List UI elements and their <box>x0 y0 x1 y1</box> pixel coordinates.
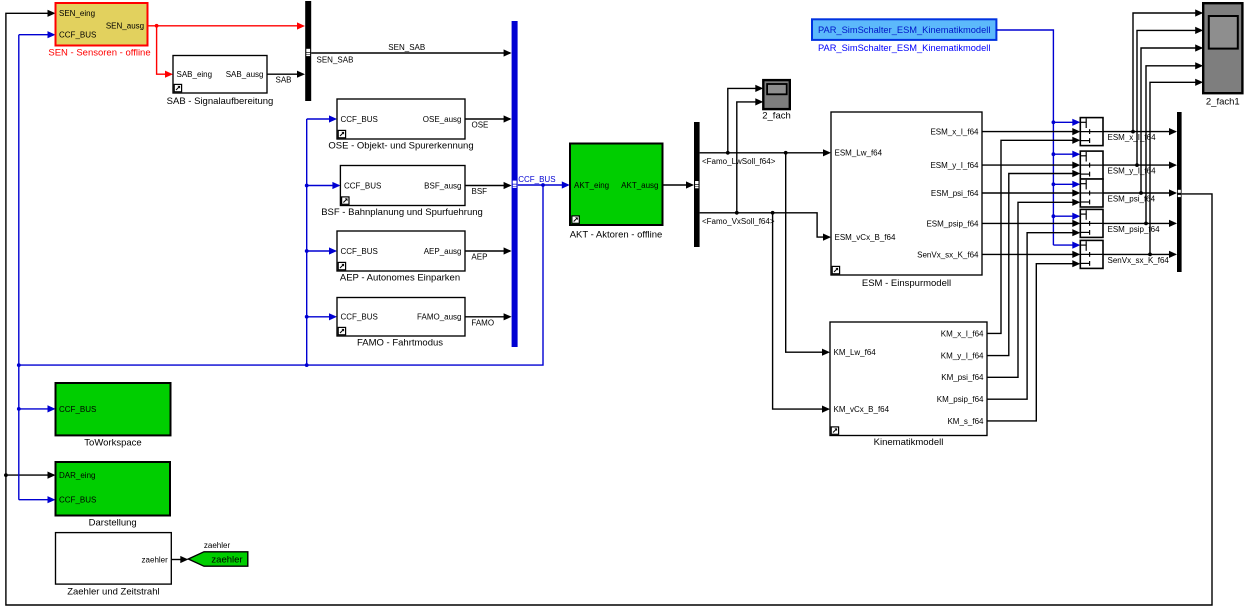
svg-text:DAR_eing: DAR_eing <box>59 471 95 480</box>
svg-text:CCF_BUS: CCF_BUS <box>344 181 381 190</box>
wire tap down to KM_vCx_B_f64 <box>773 213 830 413</box>
label CCF_BUS (blue, at Bus Creator output) <box>518 175 555 184</box>
svg-text:Kinematikmodell: Kinematikmodell <box>874 437 944 448</box>
label SAB - Signalaufbereitung <box>167 96 274 107</box>
svg-text:KM_vCx_B_f64: KM_vCx_B_f64 <box>834 405 890 414</box>
wire SEN_SAB from Mux1 to Bus Creator 2 <box>311 49 511 56</box>
label BSF <box>472 187 488 196</box>
subsystem Zaehler und Zeitstrahl <box>56 533 172 585</box>
svg-text:SEN_ausg: SEN_ausg <box>106 22 144 31</box>
mux Bus Creator 2 (blue bar) <box>512 21 518 347</box>
svg-text:FAMO_ausg: FAMO_ausg <box>417 313 461 322</box>
svg-text:OSE - Objekt- und Spurerkennun: OSE - Objekt- und Spurerkennung <box>328 141 473 152</box>
svg-text:KM_Lw_f64: KM_Lw_f64 <box>834 348 877 357</box>
scope 2_fach1 <box>1203 3 1242 93</box>
svg-text:SAB_eing: SAB_eing <box>177 70 213 79</box>
mux Mux1 (bus creator, black bar) <box>305 1 311 101</box>
svg-text:ESM_y_I_f64: ESM_y_I_f64 <box>1108 167 1157 176</box>
svg-text:ESM_psi_f64: ESM_psi_f64 <box>1108 195 1156 204</box>
label OSE <box>472 121 489 130</box>
subsystem BSF - Bahnplanung und Spurfuehrung <box>340 166 465 206</box>
label zaehler above goto tag <box>204 541 231 550</box>
svg-text:Zaehler und Zeitstrahl: Zaehler und Zeitstrahl <box>67 587 159 598</box>
svg-text:CCF_BUS: CCF_BUS <box>341 247 378 256</box>
wire <Famo_VxSoll_f64> to ESM_vCx_B_f64 <box>700 211 831 241</box>
subsystem Darstellung (green) <box>56 462 171 516</box>
switch Multiport Switch 2 <box>1080 151 1103 179</box>
svg-text:AEP_ausg: AEP_ausg <box>424 247 462 256</box>
svg-text:CCF_BUS: CCF_BUS <box>341 313 378 322</box>
svg-text:ESM_psip_f64: ESM_psip_f64 <box>1108 225 1161 234</box>
label ESM_x_I_f64 <box>1108 133 1157 142</box>
svg-text:OSE: OSE <box>472 121 489 130</box>
svg-text:2_fach1: 2_fach1 <box>1206 97 1240 108</box>
demux Bus Selector (black bar) <box>694 122 700 247</box>
svg-text:SEN_eing: SEN_eing <box>59 9 95 18</box>
svg-text:ESM_y_I_f64: ESM_y_I_f64 <box>930 161 979 170</box>
label SEN - Sensoren - offline <box>48 48 150 59</box>
label ESM_psi_f64 <box>1108 195 1156 204</box>
label OSE - Objekt- und Spurerkennung <box>328 141 473 152</box>
svg-text:CCF_BUS: CCF_BUS <box>518 175 555 184</box>
svg-text:FAMO: FAMO <box>471 318 494 327</box>
svg-text:BSF_ausg: BSF_ausg <box>424 181 461 190</box>
svg-text:ESM_psi_f64: ESM_psi_f64 <box>931 189 979 198</box>
label AEP <box>471 253 487 262</box>
label ESM_psip_f64 <box>1108 225 1161 234</box>
svg-text:CCF_BUS: CCF_BUS <box>59 496 96 505</box>
label PAR_SimSchalter_ESM_Kinematikmodell <box>818 43 990 53</box>
svg-text:zaehler: zaehler <box>204 541 231 550</box>
label FAMO <box>471 318 494 327</box>
svg-text:AKT_eing: AKT_eing <box>574 181 609 190</box>
wire ESM output 2 to switch 2 data input 1 <box>982 162 1080 169</box>
subsystem AEP - Autonomes Einparken <box>337 231 465 271</box>
mux final Mux (black bar) feeding feedback loop <box>1177 112 1182 272</box>
subsystem ToWorkspace (green) <box>56 383 171 435</box>
wire KM output 1 to switch 1 data input 2 <box>987 137 1080 334</box>
svg-text:PAR_SimSchalter_ESM_Kinematikm: PAR_SimSchalter_ESM_Kinematikmodell <box>818 43 990 53</box>
svg-text:CCF_BUS: CCF_BUS <box>341 115 378 124</box>
wire tap switch 3 output to Scope 2_fach1 input 3 <box>1141 44 1203 193</box>
subsystem AKT - Aktoren - offline (green) <box>570 144 663 226</box>
svg-text:SEN_SAB: SEN_SAB <box>317 55 354 64</box>
label Zaehler und Zeitstrahl <box>67 587 159 598</box>
subsystem ESM - Einspurmodell <box>831 112 982 275</box>
svg-text:SEN_SAB: SEN_SAB <box>388 43 425 52</box>
wire tap to Scope 2_fach input 1 <box>728 85 764 153</box>
wire tap switch 4 output to Scope 2_fach1 input 4 <box>1146 62 1203 223</box>
label FAMO - Fahrtmodus <box>357 338 443 349</box>
switch Multiport Switch 3 <box>1080 179 1103 207</box>
label Darstellung <box>89 518 137 529</box>
label Kinematikmodell <box>874 437 944 448</box>
wire KM output 5 to switch 5 data input 2 <box>987 260 1080 421</box>
wire AKT_ausg to Bus Selector <box>663 181 695 188</box>
subsystem SAB - Signalaufbereitung <box>173 56 267 94</box>
label <Famo_LwSoll_f64> <box>702 157 776 166</box>
subsystem SEN (yellow, red border) <box>56 3 148 46</box>
subsystem FAMO - Fahrtmodus <box>337 298 465 337</box>
svg-text:SAB_ausg: SAB_ausg <box>226 70 264 79</box>
svg-text:SEN - Sensoren - offline: SEN - Sensoren - offline <box>48 48 150 59</box>
label 2_fach1 <box>1206 97 1240 108</box>
svg-text:zaehler: zaehler <box>211 555 242 566</box>
svg-text:<Famo_VxSoll_f64>: <Famo_VxSoll_f64> <box>702 217 775 226</box>
svg-text:ESM_Lw_f64: ESM_Lw_f64 <box>835 149 883 158</box>
svg-text:ESM_psip_f64: ESM_psip_f64 <box>926 219 979 228</box>
label ESM_y_I_f64 <box>1108 167 1157 176</box>
wire ESM output 5 to switch 5 data input 1 <box>982 251 1080 258</box>
scope 2_fach <box>763 80 790 109</box>
wire AEP to Bus Creator 2 <box>465 247 512 254</box>
wire tap switch 5 output to Scope 2_fach1 input 5 <box>1150 79 1203 255</box>
svg-text:FAMO - Fahrtmodus: FAMO - Fahrtmodus <box>357 338 443 349</box>
label SEN_SAB below Mux1 <box>317 55 354 64</box>
svg-text:2_fach: 2_fach <box>762 111 791 122</box>
wire <Famo_LwSoll_f64> to ESM_Lw_f64 <box>700 149 831 156</box>
wire tap to Scope 2_fach input 2 <box>737 98 764 213</box>
wire tap switch 1 output to Scope 2_fach1 input 1 <box>1133 9 1203 131</box>
constant PAR_SimSchalter_ESM_Kinematikmodell (light blue) <box>812 19 996 40</box>
svg-text:SenVx_sx_K_f64: SenVx_sx_K_f64 <box>917 250 979 259</box>
wire ESM output 3 to switch 3 data input 1 <box>982 189 1080 196</box>
svg-text:BSF: BSF <box>472 187 488 196</box>
wire OSE to Bus Creator 2 <box>465 115 512 122</box>
label 2_fach <box>762 111 791 122</box>
wire SAB_ausg to Mux1 <box>267 71 305 78</box>
svg-text:KM_y_I_f64: KM_y_I_f64 <box>941 352 984 361</box>
svg-text:SAB: SAB <box>276 76 292 85</box>
svg-text:ESM_x_I_f64: ESM_x_I_f64 <box>930 128 979 137</box>
svg-text:AKT_ausg: AKT_ausg <box>621 181 658 190</box>
svg-text:KM_x_I_f64: KM_x_I_f64 <box>941 329 984 338</box>
svg-text:CCF_BUS: CCF_BUS <box>59 31 96 40</box>
wire KM output 2 to switch 2 data input 2 <box>987 170 1080 356</box>
wire zaehler to Goto tag <box>171 556 188 563</box>
svg-text:ESM - Einspurmodell: ESM - Einspurmodell <box>862 278 951 289</box>
svg-text:AEP: AEP <box>471 253 487 262</box>
wire red SEN_ausg to Mux1 and SAB_eing <box>148 22 305 77</box>
subsystem Kinematikmodell <box>830 322 987 436</box>
label BSF - Bahnplanung und Spurfuehrung <box>321 207 483 218</box>
label SenVx_sx_K_f64 <box>1108 256 1170 265</box>
svg-text:zaehler: zaehler <box>142 555 169 564</box>
svg-text:PAR_SimSchalter_ESM_Kinematikm: PAR_SimSchalter_ESM_Kinematikmodell <box>818 25 990 35</box>
label AKT - Aktoren - offline <box>570 230 663 241</box>
wire blue PAR to switch control inputs <box>996 30 1080 249</box>
switch Multiport Switch 1 <box>1080 118 1103 146</box>
svg-text:OSE_ausg: OSE_ausg <box>423 115 462 124</box>
svg-text:CCF_BUS: CCF_BUS <box>59 405 96 414</box>
wire tap switch 2 output to Scope 2_fach1 input 2 <box>1137 27 1203 165</box>
wire switch 3 output to final Mux <box>1103 189 1177 196</box>
wire ESM output 4 to switch 4 data input 1 <box>982 220 1080 227</box>
svg-text:ESM_x_I_f64: ESM_x_I_f64 <box>1108 133 1157 142</box>
svg-text:<Famo_LwSoll_f64>: <Famo_LwSoll_f64> <box>702 157 776 166</box>
label SEN_SAB above wire <box>388 43 425 52</box>
wire switch 1 output to final Mux <box>1103 128 1177 135</box>
wire KM output 4 to switch 4 data input 2 <box>987 229 1080 399</box>
svg-text:KM_s_f64: KM_s_f64 <box>947 417 984 426</box>
label <Famo_VxSoll_f64> <box>702 217 775 226</box>
wire tap down to KM_Lw_f64 <box>786 153 830 356</box>
wire blue CCF_BUS distribution net <box>17 31 570 503</box>
svg-text:AKT - Aktoren - offline: AKT - Aktoren - offline <box>570 230 663 241</box>
svg-text:SenVx_sx_K_f64: SenVx_sx_K_f64 <box>1108 256 1170 265</box>
wire ESM output 1 to switch 1 data input 1 <box>982 128 1080 135</box>
wire switch 5 output to final Mux <box>1103 251 1177 258</box>
svg-text:BSF - Bahnplanung und Spurfueh: BSF - Bahnplanung und Spurfuehrung <box>321 207 483 218</box>
subsystem OSE - Objekt- und Spurerkennung <box>337 99 465 139</box>
label ToWorkspace <box>84 438 141 449</box>
svg-text:KM_psip_f64: KM_psip_f64 <box>937 395 984 404</box>
wire KM output 3 to switch 3 data input 2 <box>987 199 1080 378</box>
wire switch 2 output to final Mux <box>1103 162 1177 169</box>
switch Multiport Switch 5 <box>1080 240 1103 268</box>
wire switch 4 output to final Mux <box>1103 220 1177 227</box>
label ESM - Einspurmodell <box>862 278 951 289</box>
goto tag zaehler (green) <box>188 552 248 566</box>
svg-text:KM_psi_f64: KM_psi_f64 <box>941 373 984 382</box>
wire FAMO to Bus Creator 2 <box>465 313 512 320</box>
label SAB <box>276 76 292 85</box>
svg-text:SAB - Signalaufbereitung: SAB - Signalaufbereitung <box>167 96 274 107</box>
svg-text:ToWorkspace: ToWorkspace <box>84 438 141 449</box>
label AEP - Autonomes Einparken <box>340 273 460 284</box>
svg-text:ESM_vCx_B_f64: ESM_vCx_B_f64 <box>835 233 896 242</box>
svg-text:AEP - Autonomes Einparken: AEP - Autonomes Einparken <box>340 273 460 284</box>
switch Multiport Switch 4 <box>1080 209 1103 237</box>
wire BSF to Bus Creator 2 <box>465 182 512 189</box>
svg-text:Darstellung: Darstellung <box>89 518 137 529</box>
